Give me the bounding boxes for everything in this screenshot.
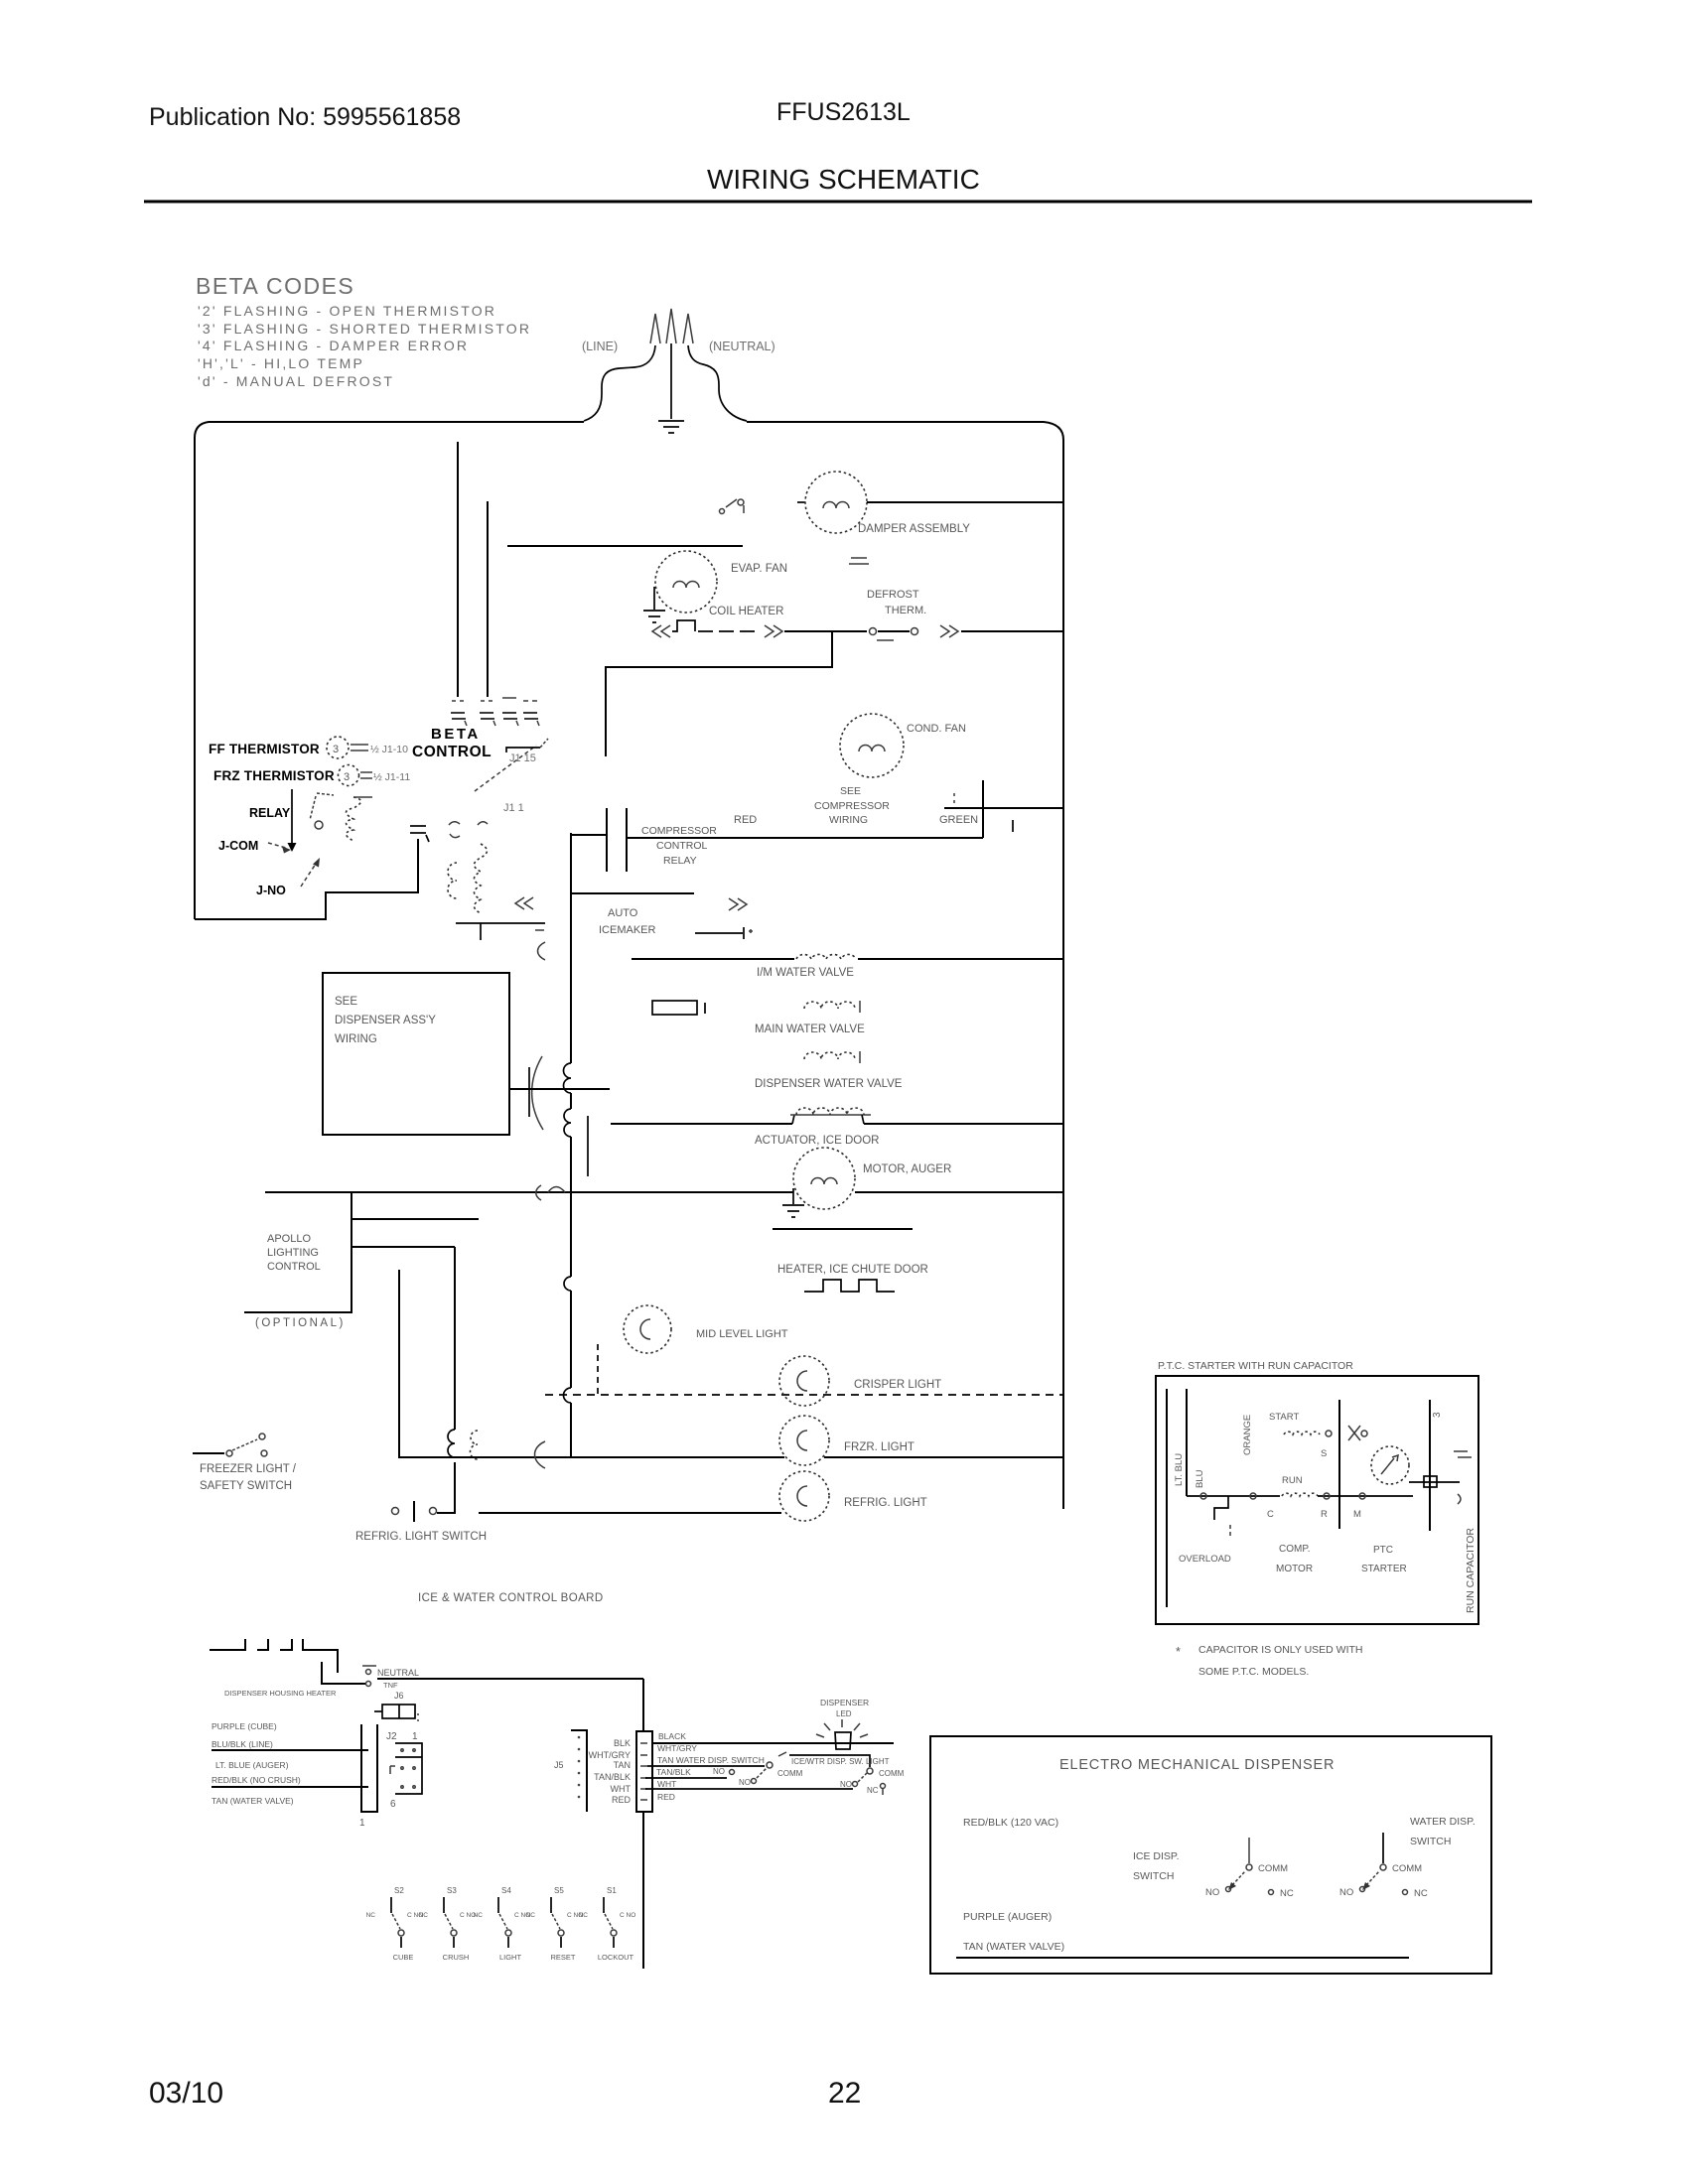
- wire dispenser box to bus: [509, 1088, 610, 1090]
- svg-text:3: 3: [1432, 1412, 1443, 1418]
- svg-text:NC: NC: [366, 1912, 376, 1919]
- wire red to compressor: [627, 837, 983, 839]
- heater ice chute element: [804, 1280, 895, 1292]
- svg-text:½ J1-10: ½ J1-10: [370, 744, 408, 755]
- compressor control relay contacts: [606, 808, 608, 872]
- ptc device: [1371, 1446, 1409, 1484]
- svg-text:I/M WATER VALVE: I/M WATER VALVE: [757, 967, 854, 979]
- svg-text:LT. BLUE (AUGER): LT. BLUE (AUGER): [215, 1760, 289, 1770]
- svg-text:CONTROL: CONTROL: [267, 1261, 321, 1273]
- svg-text:MOTOR: MOTOR: [1276, 1564, 1313, 1574]
- svg-text:RED: RED: [734, 814, 757, 826]
- svg-text:'2' FLASHING - OPEN THERMISTOR: '2' FLASHING - OPEN THERMISTOR: [198, 303, 496, 319]
- connector arrows coil heater right: [765, 625, 782, 637]
- svg-text:'4' FLASHING - DAMPER ERROR: '4' FLASHING - DAMPER ERROR: [198, 338, 469, 353]
- switch curve pair: [471, 1431, 478, 1459]
- svg-text:NO: NO: [1205, 1887, 1219, 1898]
- svg-text:PTC: PTC: [1373, 1545, 1393, 1556]
- light freezer: [779, 1416, 829, 1465]
- svg-text:NEUTRAL: NEUTRAL: [377, 1668, 419, 1678]
- svg-text:REFRIG. LIGHT: REFRIG. LIGHT: [844, 1497, 927, 1509]
- svg-text:'3' FLASHING - SHORTED THERMIS: '3' FLASHING - SHORTED THERMISTOR: [198, 321, 531, 337]
- svg-text:COMM: COMM: [1392, 1863, 1422, 1874]
- power plug prong right: [683, 314, 693, 343]
- svg-text:AUTO: AUTO: [608, 907, 638, 919]
- solenoid main water valve: [804, 1002, 855, 1009]
- wire main loop top right segment: [747, 422, 1063, 1509]
- svg-text:SEE: SEE: [840, 785, 861, 797]
- svg-text:FFUS2613L: FFUS2613L: [776, 98, 911, 126]
- wire heater return: [606, 631, 832, 756]
- svg-text:FRZR. LIGHT: FRZR. LIGHT: [844, 1441, 914, 1453]
- svg-text:RELAY: RELAY: [249, 806, 291, 820]
- wire actuator ice door left: [611, 1123, 792, 1125]
- wire dashed mid light drop: [597, 1344, 599, 1395]
- svg-text:RUN: RUN: [1282, 1475, 1303, 1486]
- contact bar lower: [587, 1116, 589, 1176]
- wire im water valve line right: [858, 958, 1063, 960]
- wire tan to switch: [647, 1765, 765, 1767]
- connector arrows coil heater left: [652, 625, 670, 637]
- connector arrows coil: [515, 897, 533, 909]
- wire auto icemaker feed: [571, 892, 694, 894]
- fuse main water valve: [652, 1001, 697, 1015]
- svg-text:RED: RED: [612, 1795, 632, 1805]
- svg-text:TAN (WATER VALVE): TAN (WATER VALVE): [211, 1796, 294, 1806]
- svg-text:S5: S5: [554, 1886, 564, 1895]
- wire lower-left step to beta control: [195, 839, 418, 919]
- box ptc starter: [1156, 1376, 1478, 1624]
- svg-text:22: 22: [828, 2077, 861, 2110]
- svg-text:COMPRESSOR: COMPRESSOR: [814, 800, 890, 812]
- wire damper to right bus: [867, 501, 1063, 503]
- svg-text:J1 15: J1 15: [509, 752, 536, 764]
- svg-text:COMPRESSOR: COMPRESSOR: [641, 825, 717, 837]
- svg-text:6: 6: [390, 1799, 396, 1810]
- svg-text:ACTUATOR, ICE DOOR: ACTUATOR, ICE DOOR: [755, 1135, 879, 1147]
- svg-text:SEE: SEE: [335, 996, 357, 1008]
- svg-text:SAFETY SWITCH: SAFETY SWITCH: [200, 1480, 292, 1492]
- svg-text:WIRING: WIRING: [829, 814, 868, 826]
- thermistor FRZ symbol: [339, 765, 359, 786]
- wire evap fan feed: [507, 545, 743, 547]
- svg-text:NC: NC: [1414, 1888, 1428, 1899]
- switch refrig light: [392, 1501, 437, 1522]
- svg-text:03/10: 03/10: [149, 2077, 223, 2110]
- svg-text:CONTROL: CONTROL: [412, 744, 492, 760]
- svg-text:FREEZER LIGHT /: FREEZER LIGHT /: [200, 1463, 297, 1475]
- door switch plunger arc: [532, 1056, 543, 1130]
- switch dispenser water: [1382, 1833, 1384, 1863]
- door switch arc freezer line: [535, 1441, 546, 1468]
- door switch arc small: [538, 942, 546, 960]
- svg-text:TAN (WATER VALVE): TAN (WATER VALVE): [963, 1941, 1064, 1953]
- wire blu blk: [211, 1749, 368, 1751]
- svg-text:(OPTIONAL): (OPTIONAL): [255, 1317, 346, 1329]
- svg-text:S2: S2: [394, 1886, 404, 1895]
- svg-text:1: 1: [412, 1731, 418, 1742]
- wire tan underline: [956, 1957, 1409, 1959]
- switch bump on bus 3: [564, 1388, 571, 1403]
- svg-text:NC: NC: [867, 1786, 879, 1795]
- svg-text:J1 1: J1 1: [503, 802, 524, 814]
- header rule: [144, 201, 1532, 204]
- svg-text:DISPENSER WATER VALVE: DISPENSER WATER VALVE: [755, 1078, 903, 1090]
- svg-text:C: C: [1267, 1509, 1274, 1520]
- ground evap fan: [643, 587, 665, 622]
- terminal neutral: [362, 1665, 376, 1667]
- wire J1 bus 1: [457, 442, 459, 697]
- connector J2: [361, 1724, 377, 1812]
- svg-text:S: S: [1321, 1448, 1327, 1459]
- power plug prong middle: [666, 309, 676, 343]
- wire freezer light feed: [193, 1452, 224, 1454]
- svg-text:BLU/BLK (LINE): BLU/BLK (LINE): [211, 1739, 273, 1749]
- wire ptc inner bus 2: [1186, 1389, 1188, 1496]
- connector J2 pin no: [478, 822, 488, 825]
- svg-text:TNF: TNF: [383, 1681, 398, 1690]
- pushbutton S4 light: [474, 1886, 531, 1962]
- svg-text:ICE & WATER CONTROL BOARD: ICE & WATER CONTROL BOARD: [418, 1592, 604, 1604]
- run capacitor: [1424, 1476, 1437, 1487]
- svg-text:NO: NO: [1339, 1887, 1353, 1898]
- solenoid im water valve: [796, 954, 856, 959]
- start winding: [1284, 1432, 1320, 1434]
- svg-text:ORANGE: ORANGE: [1242, 1415, 1253, 1455]
- svg-text:BLK: BLK: [614, 1738, 631, 1748]
- motor auger: [793, 1148, 855, 1209]
- svg-text:WHT: WHT: [657, 1779, 676, 1789]
- motor damper assembly: [805, 472, 867, 533]
- thermistor FF symbol: [327, 737, 349, 758]
- svg-text:1: 1: [359, 1818, 365, 1829]
- svg-text:EVAP. FAN: EVAP. FAN: [731, 563, 787, 575]
- connector arrows defrost right: [940, 625, 958, 637]
- solenoid dispenser water valve: [804, 1052, 855, 1059]
- defrost thermostat plates: [849, 558, 869, 564]
- box electro mechanical dispenser: [930, 1736, 1491, 1974]
- connector J2 header: [395, 1743, 422, 1794]
- svg-text:J-NO: J-NO: [256, 884, 286, 897]
- wire J3 drop to switches: [642, 1812, 644, 1969]
- switch ice disp: [767, 1762, 773, 1768]
- wire apollo second: [352, 1246, 455, 1248]
- wire icemaker to valve contact: [695, 932, 743, 934]
- defrost thermostat contacts: [870, 628, 918, 641]
- svg-text:J-COM: J-COM: [218, 839, 258, 853]
- svg-text:'d' - MANUAL DEFROST: 'd' - MANUAL DEFROST: [198, 373, 394, 389]
- connector J1 pin 4: [523, 701, 539, 726]
- svg-text:COMM: COMM: [1258, 1863, 1288, 1874]
- svg-text:FF THERMISTOR: FF THERMISTOR: [209, 742, 320, 756]
- wire ptc right vertical: [1429, 1400, 1431, 1531]
- connector J1 pin 3: [502, 698, 518, 726]
- svg-text:3: 3: [333, 744, 339, 755]
- svg-text:NC: NC: [1280, 1888, 1294, 1899]
- svg-text:SOME P.T.C. MODELS.: SOME P.T.C. MODELS.: [1198, 1666, 1309, 1678]
- wire bus to compressor relay contact: [571, 834, 607, 836]
- svg-text:(NEUTRAL): (NEUTRAL): [709, 340, 775, 353]
- pushbutton S1 lockout: [579, 1886, 636, 1962]
- J5 pin dots: [578, 1736, 581, 1799]
- svg-text:WIRING SCHEMATIC: WIRING SCHEMATIC: [707, 164, 980, 195]
- svg-text:RUN CAPACITOR: RUN CAPACITOR: [1465, 1528, 1477, 1613]
- motor evaporator fan: [655, 551, 717, 613]
- svg-text:ICEMAKER: ICEMAKER: [599, 924, 656, 936]
- svg-text:NC: NC: [474, 1912, 484, 1919]
- svg-text:S1: S1: [607, 1886, 617, 1895]
- connector J3: [636, 1731, 652, 1812]
- wire damper left stub: [797, 501, 805, 503]
- wire apollo drop 1: [398, 1270, 400, 1457]
- svg-text:Publication No: 5995561858: Publication No: 5995561858: [149, 103, 461, 131]
- wire tan blk: [645, 1777, 727, 1779]
- svg-text:TAN/BLK: TAN/BLK: [594, 1772, 631, 1782]
- svg-text:DAMPER ASSEMBLY: DAMPER ASSEMBLY: [858, 523, 970, 535]
- wire ptc mid vertical: [1338, 1400, 1340, 1529]
- pushbutton S3 crush: [419, 1886, 477, 1962]
- svg-text:C NO: C NO: [620, 1912, 635, 1919]
- overload step: [1214, 1496, 1228, 1520]
- svg-text:BETA CODES: BETA CODES: [196, 273, 354, 299]
- svg-text:TAN WATER DISP. SWITCH: TAN WATER DISP. SWITCH: [657, 1755, 765, 1765]
- wire wht: [645, 1788, 853, 1790]
- door switch bump auger line: [536, 1185, 565, 1200]
- wire green to right bus: [944, 807, 1063, 809]
- svg-text:CRUSH: CRUSH: [443, 1953, 470, 1962]
- connector J5: [571, 1730, 587, 1812]
- relay secondary coil left: [448, 863, 457, 898]
- svg-text:CAPACITOR IS ONLY USED WITH: CAPACITOR IS ONLY USED WITH: [1198, 1644, 1363, 1656]
- wire ptc inner bus 1: [1166, 1389, 1168, 1607]
- solenoid actuator ice door: [792, 1115, 794, 1124]
- svg-text:MOTOR, AUGER: MOTOR, AUGER: [863, 1163, 951, 1175]
- ground motor auger: [782, 1188, 804, 1217]
- terminal dots ptc line: [1200, 1493, 1206, 1499]
- svg-text:WHT/GRY: WHT/GRY: [589, 1750, 631, 1760]
- svg-text:THERM.: THERM.: [885, 605, 926, 616]
- wire actuator ice door right: [864, 1123, 1063, 1125]
- svg-text:START: START: [1269, 1412, 1299, 1423]
- wire heater ice chute feed: [773, 1228, 913, 1230]
- svg-text:3: 3: [344, 771, 350, 783]
- switch bumps on drop 2: [448, 1430, 455, 1457]
- bracket ice wtr disp sw light: [789, 1755, 870, 1767]
- ground symbol at plug: [658, 421, 684, 433]
- fuse tnf: [366, 1682, 371, 1687]
- svg-text:RED: RED: [657, 1792, 675, 1802]
- svg-text:APOLLO: APOLLO: [267, 1233, 311, 1245]
- svg-text:LOCKOUT: LOCKOUT: [598, 1953, 634, 1962]
- svg-text:LT. BLU: LT. BLU: [1174, 1453, 1185, 1486]
- svg-text:CRISPER LIGHT: CRISPER LIGHT: [854, 1379, 941, 1391]
- wire through coil: [456, 922, 545, 924]
- svg-text:WIRING: WIRING: [335, 1033, 377, 1045]
- svg-text:ELECTRO MECHANICAL DISPENSER: ELECTRO MECHANICAL DISPENSER: [1059, 1757, 1335, 1773]
- svg-text:NC: NC: [579, 1912, 589, 1919]
- svg-text:RESET: RESET: [550, 1953, 575, 1962]
- relay coil: [347, 797, 361, 841]
- pushbutton S5 reset: [526, 1886, 584, 1962]
- switch bumps on bus 1: [564, 1063, 571, 1093]
- svg-text:WHT: WHT: [611, 1784, 632, 1794]
- wire heater to defrost thermostat: [784, 630, 867, 632]
- wire J1 bus 2: [487, 501, 489, 697]
- wire refrig switch drop: [437, 1462, 455, 1513]
- wire motor auger right: [855, 1191, 1063, 1193]
- svg-text:DISPENSER ASS'Y: DISPENSER ASS'Y: [335, 1015, 436, 1026]
- box apollo lighting control: [244, 1193, 352, 1312]
- svg-text:RED/BLK (NO CRUSH): RED/BLK (NO CRUSH): [211, 1775, 301, 1785]
- wire red blk: [211, 1786, 368, 1788]
- svg-text:TAN: TAN: [614, 1760, 631, 1770]
- svg-text:OVERLOAD: OVERLOAD: [1179, 1554, 1231, 1565]
- wire neutral-side plug lead: [688, 345, 747, 421]
- run winding: [1282, 1493, 1318, 1496]
- connector J2 pin cap: [410, 826, 429, 842]
- connector J1 pin 1: [451, 701, 467, 726]
- wire crisper dashed line: [545, 1394, 1063, 1396]
- svg-text:DEFROST: DEFROST: [867, 589, 919, 601]
- switch dispenser ice: [1248, 1838, 1250, 1863]
- svg-text:COMM: COMM: [777, 1769, 803, 1778]
- svg-text:COMM: COMM: [879, 1769, 905, 1778]
- light mid level: [624, 1305, 671, 1353]
- svg-text:(LINE): (LINE): [582, 340, 618, 353]
- svg-text:SWITCH: SWITCH: [1133, 1870, 1174, 1882]
- svg-text:SWITCH: SWITCH: [1410, 1836, 1451, 1847]
- svg-text:FRZ THERMISTOR: FRZ THERMISTOR: [213, 768, 335, 783]
- wire main center bus: [570, 833, 572, 1063]
- svg-text:J6: J6: [394, 1691, 404, 1701]
- svg-text:WATER DISP.: WATER DISP.: [1410, 1816, 1476, 1828]
- svg-text:LIGHT: LIGHT: [499, 1953, 522, 1962]
- wire apollo drop 2: [454, 1247, 456, 1430]
- wire green riser: [982, 780, 984, 838]
- svg-text:*: *: [1176, 1645, 1181, 1659]
- svg-text:TAN/BLK: TAN/BLK: [656, 1767, 691, 1777]
- svg-text:CONTROL: CONTROL: [656, 840, 707, 852]
- svg-text:GREEN: GREEN: [939, 814, 978, 826]
- svg-text:ICE/WTR DISP. SW. LIGHT: ICE/WTR DISP. SW. LIGHT: [791, 1757, 890, 1766]
- wire refrig light line: [479, 1512, 781, 1514]
- svg-text:COIL HEATER: COIL HEATER: [709, 606, 783, 617]
- pointer J-NO: [301, 864, 316, 887]
- svg-text:J5: J5: [554, 1760, 564, 1770]
- svg-text:PURPLE (CUBE): PURPLE (CUBE): [211, 1721, 277, 1731]
- svg-text:DISPENSER HOUSING HEATER: DISPENSER HOUSING HEATER: [224, 1689, 337, 1698]
- wire main loop top left segment: [195, 422, 584, 919]
- svg-text:BETA: BETA: [431, 726, 481, 743]
- svg-text:HEATER, ICE CHUTE DOOR: HEATER, ICE CHUTE DOOR: [777, 1264, 928, 1276]
- svg-text:½ J1-11: ½ J1-11: [373, 771, 410, 783]
- svg-text:S3: S3: [447, 1886, 457, 1895]
- cap ticks: [1454, 1451, 1472, 1457]
- tick green: [1012, 820, 1014, 832]
- relay secondary coil right: [475, 844, 488, 913]
- switch ice wtr light: [867, 1768, 873, 1774]
- svg-text:NC: NC: [526, 1912, 536, 1919]
- svg-text:CUBE: CUBE: [393, 1953, 414, 1962]
- svg-text:ICE DISP.: ICE DISP.: [1133, 1850, 1180, 1862]
- svg-text:J2: J2: [386, 1731, 397, 1742]
- svg-text:COND. FAN: COND. FAN: [907, 723, 966, 735]
- svg-text:RED/BLK (120 VAC): RED/BLK (120 VAC): [963, 1817, 1058, 1829]
- svg-text:DISPENSER: DISPENSER: [820, 1698, 869, 1707]
- wire freezer light line: [398, 1456, 784, 1458]
- heater dispenser housing element: [210, 1639, 365, 1684]
- power plug prong left: [650, 314, 660, 343]
- switch freezer light safety: [226, 1433, 267, 1456]
- wire defrost thermostat to right bus: [961, 630, 1063, 632]
- box see dispenser wiring: [323, 973, 509, 1135]
- damper thermostat switch: [720, 499, 745, 514]
- connector J2 pin com: [449, 822, 460, 838]
- wire motor auger left: [265, 1191, 793, 1193]
- wire black to dispenser light: [652, 1742, 894, 1744]
- motor condenser fan: [840, 714, 904, 777]
- svg-text:BLACK: BLACK: [658, 1731, 686, 1741]
- wire neutral drop: [642, 1679, 644, 1731]
- connector J1 pin 2: [480, 701, 495, 726]
- svg-text:'H','L' - HI,LO TEMP: 'H','L' - HI,LO TEMP: [198, 355, 364, 371]
- pointer J-COM: [268, 843, 286, 848]
- start relay contact: [1348, 1426, 1360, 1440]
- wire line-side plug lead: [584, 345, 655, 421]
- svg-text:MID LEVEL LIGHT: MID LEVEL LIGHT: [696, 1328, 788, 1340]
- pushbutton S2 cube: [366, 1886, 424, 1962]
- connector J6: [382, 1705, 415, 1718]
- pointer relay: [291, 789, 293, 845]
- relay armature: [310, 793, 334, 829]
- wire im water valve line left: [632, 958, 794, 960]
- svg-text:M: M: [1353, 1509, 1361, 1520]
- svg-text:BLU: BLU: [1195, 1469, 1205, 1488]
- svg-text:P.T.C. STARTER WITH RUN CAPACI: P.T.C. STARTER WITH RUN CAPACITOR: [1158, 1360, 1353, 1372]
- svg-text:PURPLE (AUGER): PURPLE (AUGER): [963, 1911, 1052, 1923]
- svg-text:STARTER: STARTER: [1361, 1564, 1407, 1574]
- svg-text:LED: LED: [836, 1709, 852, 1718]
- svg-text:NC: NC: [419, 1912, 429, 1919]
- wire ptc main line: [1187, 1495, 1280, 1497]
- light crisper: [779, 1356, 829, 1406]
- heater defrost coil element: [672, 620, 695, 631]
- svg-text:LIGHTING: LIGHTING: [267, 1247, 319, 1259]
- contact icemaker: [743, 927, 745, 939]
- svg-text:NO: NO: [713, 1767, 725, 1776]
- svg-text:R: R: [1321, 1509, 1328, 1520]
- switch bump on bus 2: [564, 1277, 571, 1291]
- svg-text:MAIN WATER VALVE: MAIN WATER VALVE: [755, 1024, 865, 1035]
- svg-text:WHT/GRY: WHT/GRY: [657, 1743, 697, 1753]
- svg-text:COMP.: COMP.: [1279, 1544, 1311, 1555]
- svg-text:REFRIG. LIGHT SWITCH: REFRIG. LIGHT SWITCH: [355, 1531, 487, 1543]
- wire J1-15 tap: [475, 746, 536, 791]
- wire apollo top: [352, 1218, 479, 1220]
- svg-text:RELAY: RELAY: [663, 855, 697, 867]
- wire neutral bus: [377, 1678, 643, 1680]
- connector arrows icemaker: [729, 898, 747, 910]
- wire plug center to ground: [670, 343, 672, 419]
- svg-text:NO: NO: [840, 1780, 852, 1789]
- light refrig: [779, 1471, 829, 1521]
- svg-text:S4: S4: [501, 1886, 511, 1895]
- svg-text:NO: NO: [739, 1778, 751, 1787]
